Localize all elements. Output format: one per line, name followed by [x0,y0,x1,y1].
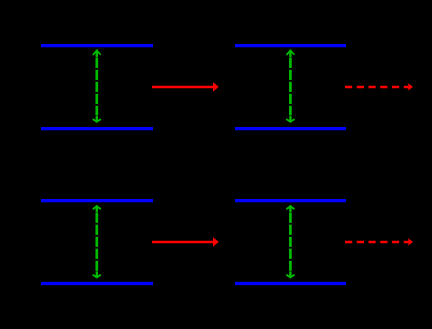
wire top-left upper blue level line [41,44,153,47]
wire red dashed arrow bottom row [345,238,413,245]
wire bottom-left upper blue level line [41,199,153,202]
wire red solid arrow bottom row [152,237,219,247]
wire bottom-right upper blue level line [235,199,346,202]
node green dashed double-headed transition arrow TR [287,51,294,122]
wire top-right upper blue level line [235,44,346,47]
node green dashed double-headed transition arrow BL [93,206,100,277]
wire bottom-right lower blue level line [235,282,346,285]
wire red dashed arrow top row [345,83,413,90]
wire top-right lower blue level line [235,127,346,130]
node green dashed double-headed transition arrow BR [287,206,294,277]
wire red solid arrow top row [152,82,219,92]
wire top-left lower blue level line [41,127,153,130]
node green dashed double-headed transition arrow TL [93,51,100,122]
wire bottom-left lower blue level line [41,282,153,285]
